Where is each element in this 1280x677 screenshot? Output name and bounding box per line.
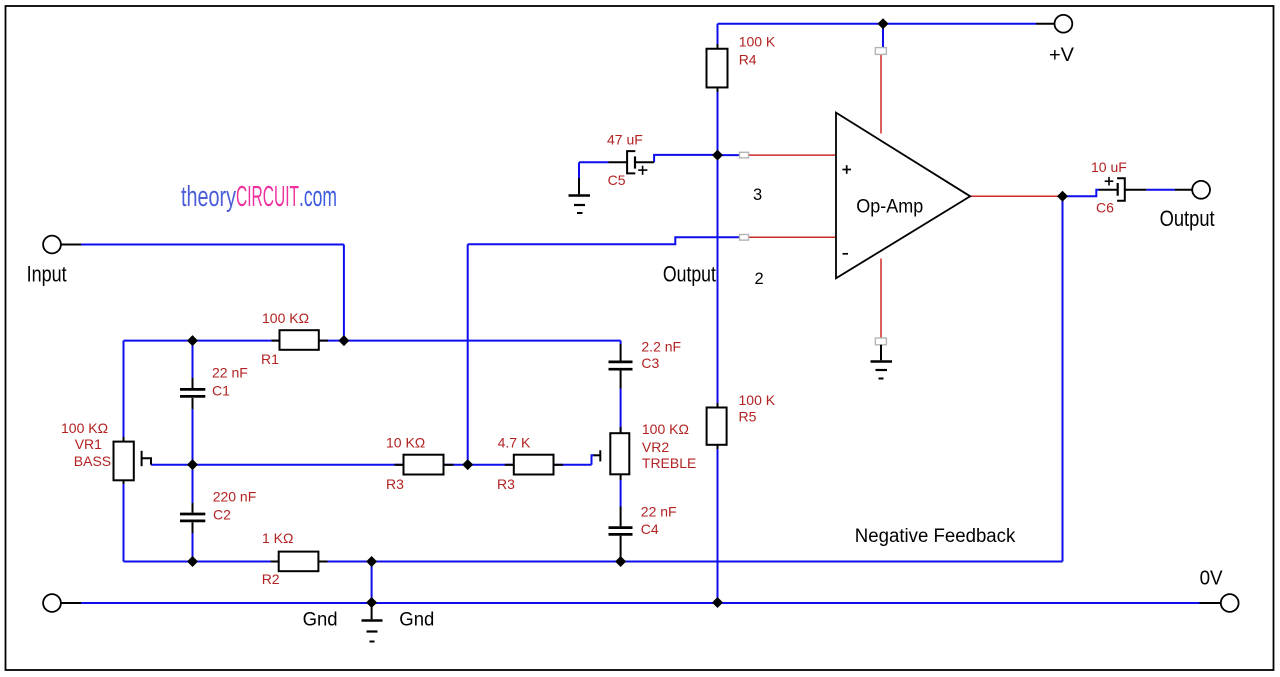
svg-text:R3: R3 [497,476,515,492]
svg-text:Output: Output [1160,206,1215,231]
wire C3 leads [620,344,622,361]
wire inverting column [467,244,469,464]
svg-text:47 uF: 47 uF [607,132,643,148]
svg-text:100 KΩ: 100 KΩ [642,421,689,437]
wire inverting feed [468,237,741,244]
wire node to R5 top [717,155,719,403]
wire R1 stubs [272,340,280,342]
wire VR2 column stubs [620,427,622,433]
svg-text:R1: R1 [261,351,279,367]
wire C1 leads [192,378,194,388]
svg-text:Op-Amp: Op-Amp [856,195,923,217]
wire C1 top [192,341,194,378]
svg-text:.com: .com [299,181,337,213]
node bottom row / C2 [187,556,198,567]
wire VR2 wiper step [592,455,595,465]
wire input terminal lead [61,244,81,246]
resistor R1 [280,330,319,350]
resistor R3 (4.7K) [514,455,554,475]
node 0V rail / gnd symbol [366,597,377,608]
logo theoryCIRCUIT.com [181,181,337,213]
svg-text:C6: C6 [1096,200,1114,216]
wire R3 stubs [395,464,404,466]
wire C2 bottom [192,533,194,562]
wire R3b stubs [505,464,514,466]
wire R4 stubs [717,44,719,49]
node noninverting [712,150,723,161]
svg-text:R5: R5 [739,409,757,425]
svg-text:BASS: BASS [74,453,111,469]
wire op-amp inverting red [749,236,839,238]
wire C1 bottom to wiper row [192,409,194,465]
pin 2 square [740,235,749,241]
terminal Output [1192,181,1210,199]
svg-text:CIRCUIT: CIRCUIT [236,181,299,213]
wire output node to C6 [1063,190,1100,197]
svg-text:R3: R3 [386,476,404,492]
wire R2 node to ground rail [371,562,373,603]
wire op-amp output red [970,195,1063,197]
wire C4 leads [620,507,622,527]
resistor R4 [707,49,728,88]
node R1 left / C1 [187,335,198,346]
svg-text:R2: R2 [262,571,280,587]
wire output terminal lead [1175,189,1192,191]
op-amp U1 [836,113,970,279]
capacitor C1 [180,389,205,396]
wire 0V terminal lead [1200,602,1221,604]
wire R5 stubs [717,403,719,408]
wire input drop to R1 node [343,245,345,341]
node R1 right / input drop [338,335,349,346]
terminal +V [1055,15,1073,33]
wire op-amp ground red [880,259,882,339]
wire C5 left [579,161,609,163]
wire C3 top drop [620,341,622,344]
node bottom row / C4 [615,556,626,567]
wire VR1 bottom [123,484,125,562]
wire C6 to output terminal [1146,189,1175,191]
pin 3 square [740,152,749,158]
node op-amp output [1057,191,1068,202]
svg-text:C5: C5 [608,172,626,188]
svg-text:Input: Input [27,261,67,286]
svg-text:4.7 K: 4.7 K [498,435,531,451]
potentiometer VR1 [114,442,152,481]
svg-text:220 nF: 220 nF [213,489,257,505]
potentiometer VR2 [594,433,630,474]
wire output node drop (feedback) [1062,196,1064,561]
node wiper row / C1-C2 [187,459,198,470]
pin V+ square [875,48,886,55]
wire gnd terminal lead [61,602,81,604]
node 0V rail / R5 [712,597,723,608]
wire VR2 top lead [620,389,622,434]
svg-text:22 nF: 22 nF [641,503,677,519]
svg-text:Negative Feedback: Negative Feedback [855,526,1016,547]
svg-text:VR2: VR2 [642,439,669,455]
svg-text:VR1: VR1 [75,436,102,452]
svg-text:Gnd: Gnd [399,610,434,631]
capacitor C6 electrolytic [1099,177,1146,201]
wire R4 bottom to node [717,92,719,155]
svg-text:22 nF: 22 nF [212,365,248,381]
node wiper row / inverting column [462,459,473,470]
pin gnd square [875,338,886,345]
wire VR1 stubs [123,437,125,442]
svg-text:100 K: 100 K [739,34,776,50]
wire bottom row [124,561,1063,563]
wire top rail [718,23,1037,25]
ground Gnd (bottom rail) [362,603,383,642]
wire R2 stubs [271,561,279,563]
terminal 0V [1221,594,1239,612]
wire C2 leads [192,503,194,513]
svg-text:10 uF: 10 uF [1091,159,1127,175]
wire +V terminal lead [1036,23,1055,25]
capacitor C4 [609,528,633,535]
svg-text:3: 3 [753,186,762,204]
svg-text:Output: Output [663,261,716,286]
svg-text:C3: C3 [641,355,659,371]
wire C5 ground stub [578,162,580,178]
wire op-amp noninverting red [749,154,839,156]
wire R1 row [124,340,621,342]
svg-text:0V: 0V [1200,567,1224,589]
wire 0V rail [81,602,1200,604]
ground (op-amp) [871,345,893,379]
wire R4 top [717,24,719,44]
node top rail / V+ [878,18,889,29]
wire C2 top [192,465,194,503]
wire C5 ground stem [578,178,580,194]
terminal Input [43,236,61,254]
svg-text:100 KΩ: 100 KΩ [262,310,309,326]
svg-text:100 K: 100 K [739,392,776,408]
resistor R3 (10K) [404,455,444,475]
svg-text:C4: C4 [641,521,659,537]
svg-text:2: 2 [755,270,764,288]
wire input horizontal [81,244,344,246]
wire node to noninv pin [718,154,742,156]
wire wiper row [151,464,592,466]
wire V+ pin drop [882,24,884,48]
node bottom row / R2 gnd drop [366,556,377,567]
terminal Gnd left [43,594,61,612]
svg-text:100 KΩ: 100 KΩ [61,420,108,436]
wire R5 bottom to ground rail [717,449,719,603]
wire VR2 to C4 [620,480,622,507]
wire C5 right step to node [654,155,717,162]
svg-text:10 KΩ: 10 KΩ [386,435,425,451]
capacitor C3 [609,362,633,369]
wire op-amp V+ red [880,55,882,134]
svg-text:Gnd: Gnd [303,610,338,631]
resistor R5 [707,408,727,445]
svg-text:1 KΩ: 1 KΩ [262,530,293,546]
svg-text:+V: +V [1049,44,1074,66]
svg-text:R4: R4 [739,52,757,68]
capacitor C2 [180,514,205,521]
ground (C5) [569,196,591,214]
svg-text:2.2 nF: 2.2 nF [641,338,681,354]
capacitor C5 electrolytic [609,151,655,175]
resistor R2 [279,552,319,572]
svg-text:theory: theory [181,181,236,213]
wire VR1 top [123,341,125,437]
svg-text:TREBLE: TREBLE [642,455,696,471]
svg-text:C1: C1 [212,383,230,399]
svg-text:C2: C2 [213,506,231,522]
